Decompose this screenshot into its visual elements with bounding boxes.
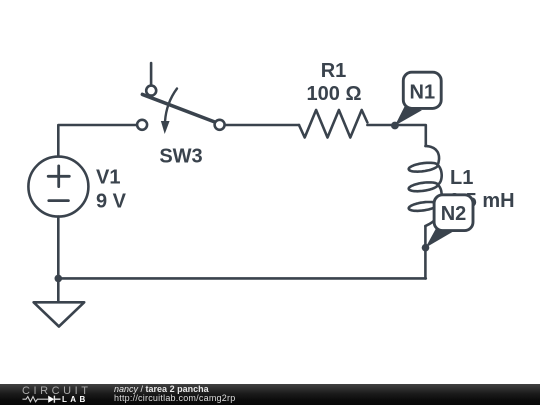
footer url line — [114, 394, 235, 403]
svg-text:SW3: SW3 — [159, 146, 202, 168]
svg-text:R1: R1 — [321, 60, 347, 82]
switch SW3 lever — [142, 94, 214, 122]
wire bottom rail — [58, 277, 426, 280]
inductor L1 coil — [409, 146, 442, 226]
CircuitLab logo wordmark — [22, 387, 91, 396]
svg-text:N1: N1 — [410, 81, 436, 103]
node N2 junction dot — [422, 244, 430, 252]
wire inductor bottom to bottom rail — [424, 226, 427, 278]
node N2 flag pointer — [425, 228, 452, 247]
node N1 label box — [403, 72, 441, 108]
logo LAB text — [62, 395, 89, 404]
logo diode — [48, 396, 54, 403]
node N1 flag pointer — [395, 105, 422, 125]
junction dot bottom-left — [55, 275, 63, 283]
resistor R1 zigzag — [299, 110, 367, 138]
V1 plus sign — [48, 166, 69, 187]
svg-text:9 V: 9 V — [96, 190, 127, 212]
svg-text:N2: N2 — [441, 203, 467, 225]
svg-text:L1: L1 — [450, 167, 473, 189]
wire top-left: V1 top to switch left terminal — [58, 125, 137, 157]
ground — [34, 302, 85, 326]
voltage source V1 circle — [28, 157, 88, 217]
switch SW3 arrowhead — [161, 121, 170, 134]
svg-text:V1: V1 — [96, 166, 120, 188]
wire switch right terminal to resistor — [225, 124, 299, 127]
switch SW3 top stub — [150, 63, 153, 85]
switch SW3 left terminal — [137, 120, 147, 130]
svg-text:100 Ω: 100 Ω — [307, 83, 362, 105]
footer title line — [114, 385, 209, 394]
logo zigzag wire — [23, 397, 49, 402]
switch SW3 top terminal — [146, 86, 156, 96]
switch SW3 right terminal — [215, 120, 225, 130]
footer bar — [0, 384, 540, 405]
node N2 label box — [434, 195, 473, 231]
V1 minus sign — [49, 199, 69, 202]
wire V1 bottom to ground — [57, 217, 60, 302]
switch SW3 action arrow arc — [165, 89, 177, 122]
wire resistor to top-right corner — [367, 125, 425, 146]
CircuitLab logo resistor-diode-LAB row — [0, 384, 96, 405]
node N1 junction dot — [391, 122, 399, 130]
